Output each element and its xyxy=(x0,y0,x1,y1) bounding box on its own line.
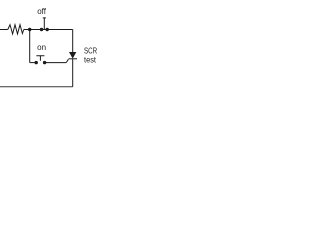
SCR cathode bar xyxy=(69,58,78,60)
wire on-button left xyxy=(30,62,37,64)
pushbutton off (NC) contact dots xyxy=(40,28,43,31)
svg-text:SCR: SCR xyxy=(84,46,97,55)
SCR gate diagonal xyxy=(66,59,68,62)
wire cathode down xyxy=(72,59,74,87)
node junction dot xyxy=(28,28,31,31)
wire left vertical branch xyxy=(29,30,31,63)
pushbutton on (NO) contact dots xyxy=(43,61,46,64)
pushbutton on actuator xyxy=(36,56,44,61)
wire right vertical (anode) xyxy=(72,30,74,53)
svg-text:on: on xyxy=(37,43,46,52)
SCR thyristor triangle xyxy=(69,52,76,59)
wire gate horizontal xyxy=(45,62,67,64)
pushbutton off actuator xyxy=(43,18,46,30)
svg-text:test: test xyxy=(84,55,97,64)
wire bottom xyxy=(0,86,73,88)
resistor R1 xyxy=(8,25,24,34)
wire top (resistor to corner) xyxy=(24,29,73,31)
wire top-left lead xyxy=(0,29,8,31)
svg-text:off: off xyxy=(37,7,47,16)
